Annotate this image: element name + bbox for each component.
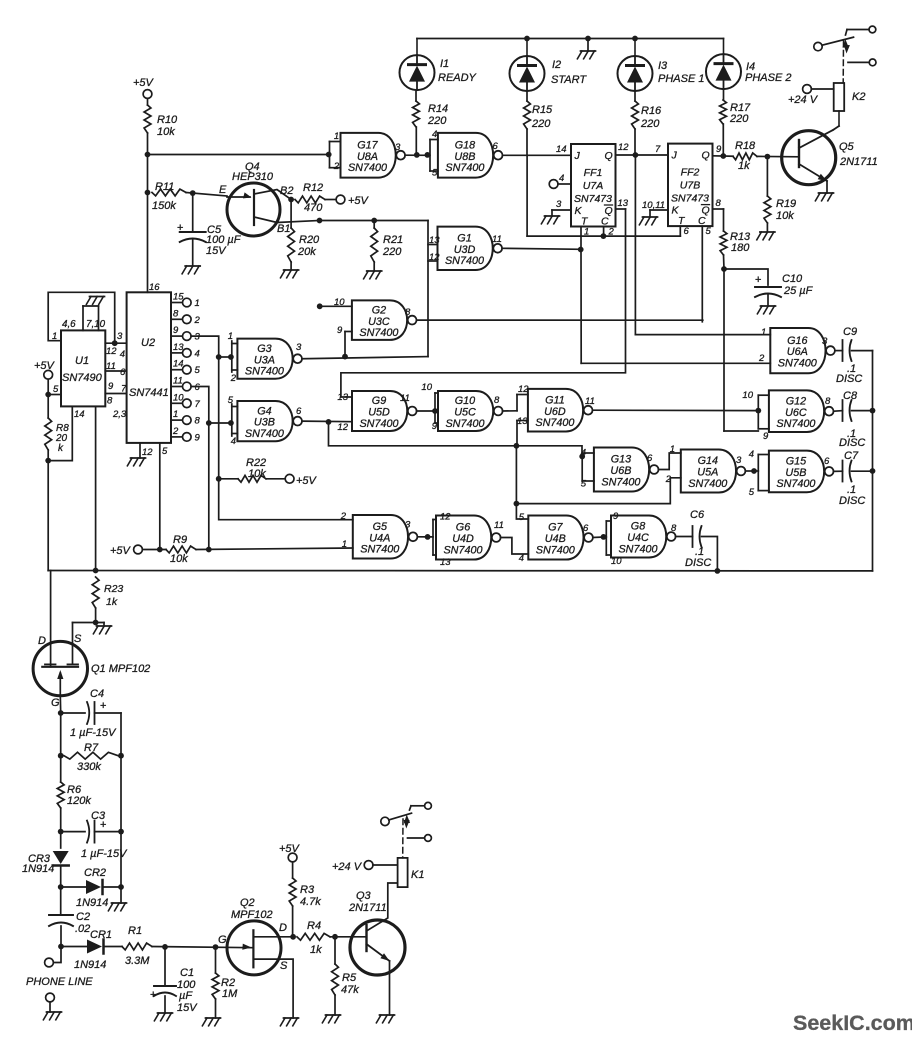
- svg-text:13: 13: [440, 557, 451, 568]
- svg-text:U1: U1: [75, 355, 89, 367]
- svg-text:R20: R20: [299, 234, 320, 246]
- svg-text:3: 3: [195, 332, 201, 343]
- svg-text:SN7400: SN7400: [245, 428, 284, 440]
- svg-text:6: 6: [493, 141, 499, 152]
- svg-text:J: J: [671, 150, 678, 162]
- svg-text:4: 4: [749, 449, 754, 460]
- svg-text:15V: 15V: [206, 245, 227, 257]
- svg-text:PHONE LINE: PHONE LINE: [26, 976, 93, 988]
- svg-text:1 µF-15V: 1 µF-15V: [81, 848, 128, 860]
- svg-text:R1: R1: [128, 925, 142, 937]
- svg-text:25 µF: 25 µF: [783, 285, 814, 297]
- svg-text:6: 6: [195, 382, 201, 393]
- svg-text:470: 470: [304, 202, 323, 214]
- svg-text:12: 12: [429, 252, 440, 263]
- svg-text:READY: READY: [438, 72, 477, 84]
- svg-text:G6: G6: [456, 522, 470, 534]
- svg-text:3: 3: [822, 336, 828, 347]
- svg-text:13: 13: [429, 235, 440, 246]
- svg-text:330k: 330k: [77, 761, 101, 773]
- svg-text:G18: G18: [455, 139, 475, 151]
- svg-text:10,11: 10,11: [642, 200, 665, 211]
- svg-text:G7: G7: [548, 522, 563, 534]
- svg-text:1N914: 1N914: [22, 863, 54, 875]
- svg-text:7: 7: [195, 399, 201, 410]
- svg-text:R16: R16: [641, 105, 662, 117]
- svg-text:SN7400: SN7400: [359, 327, 398, 339]
- svg-text:5: 5: [519, 512, 525, 523]
- svg-text:SN7400: SN7400: [601, 476, 640, 488]
- svg-text:R12: R12: [303, 182, 323, 194]
- svg-text:I3: I3: [658, 60, 668, 72]
- svg-text:+5V: +5V: [296, 475, 318, 487]
- svg-text:220: 220: [427, 115, 447, 127]
- svg-text:G10: G10: [455, 395, 475, 407]
- svg-text:13: 13: [517, 416, 528, 427]
- svg-text:9: 9: [108, 381, 114, 392]
- svg-text:U6C: U6C: [785, 407, 807, 419]
- svg-text:U4B: U4B: [545, 533, 566, 545]
- svg-text:U3B: U3B: [254, 417, 275, 429]
- svg-text:R4: R4: [307, 920, 321, 932]
- svg-text:K1: K1: [411, 869, 424, 881]
- svg-text:11: 11: [400, 393, 410, 404]
- svg-text:C1: C1: [180, 967, 194, 979]
- svg-text:4,6: 4,6: [62, 319, 76, 330]
- svg-text:8: 8: [825, 396, 831, 407]
- svg-text:SN7400: SN7400: [445, 162, 484, 174]
- svg-text:Q3: Q3: [356, 890, 372, 902]
- svg-text:µF: µF: [179, 990, 193, 1002]
- svg-text:Q: Q: [702, 150, 710, 162]
- svg-text:D: D: [279, 922, 287, 934]
- svg-text:9: 9: [613, 511, 619, 522]
- svg-text:8: 8: [107, 396, 113, 407]
- svg-text:U2: U2: [141, 337, 155, 349]
- svg-text:SN7400: SN7400: [776, 418, 815, 430]
- svg-text:+: +: [177, 222, 183, 234]
- svg-text:DISC: DISC: [836, 373, 862, 385]
- svg-text:220: 220: [729, 113, 749, 125]
- svg-text:2: 2: [230, 373, 237, 384]
- svg-text:3: 3: [117, 331, 123, 342]
- svg-text:Q2: Q2: [240, 897, 255, 909]
- svg-text:+5V: +5V: [110, 545, 132, 557]
- svg-text:12: 12: [142, 447, 153, 458]
- svg-text:2N1711: 2N1711: [348, 902, 387, 914]
- svg-text:2: 2: [333, 161, 340, 172]
- svg-text:G9: G9: [372, 395, 386, 407]
- svg-text:4: 4: [432, 129, 437, 140]
- svg-text:1: 1: [195, 298, 200, 309]
- svg-text:12: 12: [337, 422, 348, 433]
- svg-text:DISC: DISC: [685, 557, 711, 569]
- svg-text:9: 9: [195, 432, 201, 443]
- svg-text:Q5: Q5: [839, 141, 855, 153]
- svg-text:10k: 10k: [776, 210, 794, 222]
- svg-text:9: 9: [763, 431, 769, 442]
- svg-text:R19: R19: [776, 198, 796, 210]
- svg-text:U6A: U6A: [787, 346, 808, 358]
- svg-text:B1: B1: [277, 223, 290, 235]
- svg-text:+5V: +5V: [133, 77, 155, 89]
- svg-text:120k: 120k: [67, 795, 91, 807]
- svg-text:10k: 10k: [248, 468, 266, 480]
- svg-text:CR1: CR1: [90, 929, 112, 941]
- svg-text:4: 4: [519, 553, 524, 564]
- svg-text:9: 9: [337, 325, 343, 336]
- svg-text:+5V: +5V: [34, 360, 56, 372]
- svg-text:U6D: U6D: [544, 406, 566, 418]
- svg-text:14: 14: [556, 144, 567, 155]
- svg-text:U4D: U4D: [452, 533, 474, 545]
- svg-text:SN7400: SN7400: [618, 543, 657, 555]
- svg-text:14: 14: [74, 409, 85, 420]
- svg-text:8: 8: [716, 198, 722, 209]
- svg-text:9: 9: [432, 421, 438, 432]
- svg-text:.02: .02: [75, 923, 90, 935]
- svg-text:C8: C8: [843, 390, 858, 402]
- svg-text:1k: 1k: [310, 944, 322, 956]
- svg-text:MPF102: MPF102: [231, 909, 273, 921]
- svg-text:1k: 1k: [106, 596, 118, 608]
- svg-text:G1: G1: [457, 233, 471, 245]
- svg-text:2N1711: 2N1711: [839, 156, 878, 168]
- svg-text:1 µF-15V: 1 µF-15V: [70, 727, 117, 739]
- svg-text:5: 5: [706, 226, 712, 237]
- svg-text:6: 6: [583, 523, 589, 534]
- svg-text:1: 1: [334, 131, 339, 142]
- svg-text:G11: G11: [545, 394, 565, 406]
- svg-text:2: 2: [172, 426, 179, 437]
- svg-text:J: J: [574, 150, 581, 162]
- svg-text:9: 9: [173, 325, 179, 336]
- svg-text:G5: G5: [373, 521, 388, 533]
- svg-text:220: 220: [640, 118, 660, 130]
- svg-text:1: 1: [173, 409, 178, 420]
- svg-text:U8A: U8A: [357, 151, 378, 163]
- svg-text:SN7400: SN7400: [360, 544, 399, 556]
- svg-text:FF2: FF2: [681, 167, 700, 179]
- svg-text:START: START: [551, 74, 587, 86]
- svg-text:SN7400: SN7400: [535, 417, 574, 429]
- svg-text:G8: G8: [631, 521, 645, 533]
- svg-text:B2: B2: [280, 185, 293, 197]
- svg-text:K2: K2: [852, 91, 865, 103]
- svg-text:7: 7: [655, 144, 661, 155]
- svg-text:5: 5: [195, 365, 201, 376]
- svg-text:SN7490: SN7490: [62, 372, 103, 384]
- svg-text:R3: R3: [300, 884, 315, 896]
- svg-text:SN7400: SN7400: [359, 418, 398, 430]
- svg-text:SeekIC.com: SeekIC.com: [793, 1011, 912, 1035]
- svg-text:6: 6: [296, 406, 302, 417]
- svg-text:R11: R11: [155, 181, 174, 193]
- svg-text:G2: G2: [372, 304, 386, 316]
- svg-text:220: 220: [382, 246, 402, 258]
- svg-text:G13: G13: [611, 454, 631, 466]
- svg-text:5: 5: [749, 487, 755, 498]
- svg-text:4: 4: [120, 349, 125, 360]
- svg-text:S: S: [74, 633, 82, 645]
- svg-text:SN7400: SN7400: [536, 544, 575, 556]
- svg-text:SN7400: SN7400: [778, 357, 817, 369]
- svg-text:13: 13: [337, 392, 348, 403]
- svg-text:8: 8: [173, 308, 179, 319]
- svg-text:PHASE 1: PHASE 1: [658, 73, 704, 85]
- svg-text:C9: C9: [843, 326, 857, 338]
- svg-text:1: 1: [52, 331, 57, 342]
- svg-text:6: 6: [120, 367, 126, 378]
- svg-text:SN7400: SN7400: [445, 418, 484, 430]
- svg-text:47k: 47k: [341, 984, 359, 996]
- svg-text:4: 4: [231, 436, 236, 447]
- svg-text:8: 8: [405, 307, 411, 318]
- svg-text:G16: G16: [787, 335, 807, 347]
- svg-text:10k: 10k: [157, 126, 175, 138]
- svg-text:FF1: FF1: [584, 167, 603, 179]
- svg-text:150k: 150k: [152, 200, 176, 212]
- svg-text:R5: R5: [342, 972, 357, 984]
- svg-text:U7A: U7A: [583, 180, 603, 192]
- svg-text:9: 9: [716, 144, 722, 155]
- svg-text:2,3: 2,3: [112, 409, 127, 420]
- svg-text:R23: R23: [104, 583, 123, 595]
- svg-text:10: 10: [742, 390, 753, 401]
- svg-text:3: 3: [556, 199, 562, 210]
- svg-text:1: 1: [670, 444, 675, 455]
- svg-text:8: 8: [671, 523, 677, 534]
- svg-text:R10: R10: [157, 114, 178, 126]
- svg-text:SN7473: SN7473: [671, 193, 709, 205]
- svg-text:+5V: +5V: [348, 195, 370, 207]
- svg-text:6: 6: [684, 226, 690, 237]
- svg-text:U5A: U5A: [697, 467, 718, 479]
- svg-text:5: 5: [162, 446, 168, 457]
- svg-text:2: 2: [340, 511, 347, 522]
- svg-text:220: 220: [531, 118, 551, 130]
- svg-text:1: 1: [761, 327, 766, 338]
- svg-text:11: 11: [585, 396, 595, 407]
- svg-text:10k: 10k: [170, 553, 188, 565]
- svg-text:13: 13: [173, 342, 184, 353]
- svg-text:D: D: [38, 635, 46, 647]
- svg-text:3.3M: 3.3M: [125, 955, 150, 967]
- svg-text:SN7400: SN7400: [443, 544, 482, 556]
- svg-text:U5C: U5C: [454, 407, 476, 419]
- svg-text:10: 10: [421, 382, 432, 393]
- svg-text:E: E: [219, 184, 227, 196]
- svg-text:1N914: 1N914: [74, 959, 106, 971]
- svg-text:Q1 MPF102: Q1 MPF102: [91, 663, 150, 675]
- svg-text:SN7400: SN7400: [348, 162, 387, 174]
- svg-text:G12: G12: [786, 395, 806, 407]
- svg-text:5: 5: [432, 168, 438, 179]
- svg-text:PHASE 2: PHASE 2: [745, 72, 791, 84]
- svg-text:3: 3: [395, 142, 401, 153]
- svg-text:C3: C3: [91, 810, 106, 822]
- svg-text:R15: R15: [532, 104, 553, 116]
- svg-text:11: 11: [173, 376, 183, 387]
- svg-text:+: +: [755, 274, 761, 286]
- svg-text:U3D: U3D: [454, 244, 476, 256]
- svg-text:1M: 1M: [222, 988, 238, 1000]
- svg-text:+24 V: +24 V: [788, 94, 819, 106]
- svg-text:14: 14: [173, 359, 184, 370]
- svg-text:U8B: U8B: [454, 151, 475, 163]
- svg-text:+: +: [100, 700, 106, 712]
- svg-text:1N914: 1N914: [76, 897, 108, 909]
- svg-text:12: 12: [618, 142, 629, 153]
- svg-text:I2: I2: [552, 59, 561, 71]
- svg-text:4: 4: [559, 173, 564, 184]
- svg-text:SN7441: SN7441: [129, 387, 169, 399]
- svg-text:4.7k: 4.7k: [300, 896, 321, 908]
- svg-text:3: 3: [296, 342, 302, 353]
- svg-text:CR2: CR2: [84, 867, 106, 879]
- svg-text:U5B: U5B: [785, 467, 806, 479]
- svg-text:13: 13: [618, 198, 629, 209]
- svg-text:16: 16: [149, 282, 160, 293]
- svg-text:C7: C7: [844, 450, 859, 462]
- svg-text:10: 10: [173, 392, 184, 403]
- svg-text:11: 11: [106, 361, 116, 372]
- svg-text:11: 11: [492, 234, 502, 245]
- svg-text:G4: G4: [257, 405, 271, 417]
- svg-text:11: 11: [494, 520, 504, 531]
- svg-text:SN7400: SN7400: [245, 366, 284, 378]
- svg-text:C2: C2: [76, 911, 90, 923]
- svg-text:HEP310: HEP310: [232, 171, 274, 183]
- svg-text:3: 3: [736, 455, 742, 466]
- svg-text:I1: I1: [440, 58, 449, 70]
- svg-text:C10: C10: [782, 273, 803, 285]
- svg-text:G15: G15: [786, 456, 807, 468]
- svg-text:G17: G17: [357, 139, 378, 151]
- svg-text:7,10: 7,10: [86, 319, 106, 330]
- svg-text:C6: C6: [690, 509, 705, 521]
- svg-text:15: 15: [173, 292, 184, 303]
- svg-text:+: +: [150, 989, 156, 1001]
- svg-text:R7: R7: [84, 742, 99, 754]
- svg-text:+24 V: +24 V: [332, 861, 363, 873]
- svg-text:2: 2: [758, 353, 765, 364]
- svg-text:U6B: U6B: [610, 465, 631, 477]
- svg-text:U4C: U4C: [627, 532, 649, 544]
- svg-text:1k: 1k: [738, 160, 750, 172]
- svg-text:G: G: [51, 697, 60, 709]
- svg-text:SN7400: SN7400: [445, 255, 484, 267]
- svg-text:3: 3: [405, 520, 411, 531]
- svg-text:6: 6: [824, 456, 830, 467]
- svg-text:SN7400: SN7400: [776, 478, 815, 490]
- svg-text:U7B: U7B: [680, 180, 700, 192]
- svg-text:15V: 15V: [177, 1002, 198, 1014]
- svg-text:C4: C4: [90, 688, 104, 700]
- svg-text:R9: R9: [173, 534, 187, 546]
- svg-text:G3: G3: [257, 343, 271, 355]
- svg-text:G14: G14: [698, 455, 718, 467]
- svg-text:5: 5: [53, 384, 59, 395]
- svg-text:12: 12: [106, 346, 117, 357]
- svg-text:180: 180: [731, 242, 750, 254]
- svg-text:SN7400: SN7400: [688, 478, 727, 490]
- svg-text:R21: R21: [383, 234, 403, 246]
- svg-text:DISC: DISC: [839, 495, 865, 507]
- svg-text:G: G: [218, 934, 227, 946]
- svg-text:20k: 20k: [297, 246, 316, 258]
- svg-text:8: 8: [494, 395, 500, 406]
- svg-text:SN7473: SN7473: [574, 193, 612, 205]
- svg-text:8: 8: [195, 416, 201, 427]
- svg-text:6: 6: [647, 453, 653, 464]
- svg-text:5: 5: [581, 479, 587, 490]
- svg-text:1: 1: [228, 331, 233, 342]
- svg-text:Q: Q: [605, 150, 613, 162]
- svg-text:DISC: DISC: [839, 437, 865, 449]
- svg-text:U5D: U5D: [368, 407, 390, 419]
- svg-text:R18: R18: [735, 140, 756, 152]
- svg-text:12: 12: [440, 512, 451, 523]
- svg-text:5: 5: [228, 395, 234, 406]
- svg-text:U3A: U3A: [254, 354, 275, 366]
- svg-text:R14: R14: [428, 103, 448, 115]
- svg-text:10: 10: [611, 556, 622, 567]
- svg-text:2: 2: [194, 315, 201, 326]
- svg-text:4: 4: [195, 348, 200, 359]
- svg-text:S: S: [280, 960, 288, 972]
